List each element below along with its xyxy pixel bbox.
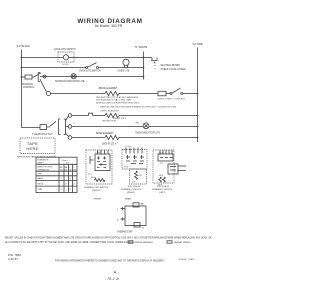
svg-text:FOR WIRING INFORMATION REFER T: FOR WIRING INFORMATION REFER TO OWNERS G… [55,260,164,263]
thermostat switch [32,121,56,136]
wire [119,93,158,95]
svg-text:ELEMENTS: ELEMENTS [38,160,49,162]
svg-text:BA: BA [65,166,68,169]
svg-text:SURFACE UNIT SWITCH: SURFACE UNIT SWITCH [84,186,108,189]
thermostat box [117,202,146,233]
wire [119,115,198,117]
svg-text:Poss 1: Poss 1 [62,160,69,162]
surface unit switch 3 [152,150,186,194]
svg-text:OVEN ELEMENT: OVEN ELEMENT [100,111,120,113]
thermal cutout [89,113,93,115]
svg-text:CLOCK: CLOCK [62,64,69,66]
svg-text:1 2 3 4: 1 2 3 4 [125,146,131,148]
oven control switch S2 [157,88,198,100]
svg-text:d: d [138,123,139,125]
svg-text:OVEN LITE SWITCH: OVEN LITE SWITCH [79,70,101,72]
wire [119,137,198,139]
neutral terminal [151,58,186,72]
wire top element line [72,115,89,117]
svg-text:"L1" BLACK: "L1" BLACK [16,44,30,48]
svg-text:CHECK LOCAL CODES: CHECK LOCAL CODES [161,68,186,71]
svg-text:CONTROL: CONTROL [23,87,35,89]
svg-text:WIRE OF OVEN: WIRE OF OVEN [38,167,53,169]
svg-text:(RIGHT): (RIGHT) [127,192,135,194]
svg-text:H 2 4: H 2 4 [124,167,128,169]
svg-text:B: B [117,220,119,222]
svg-text:X: X [74,183,76,185]
clock motor M1 [54,49,76,66]
svg-text:T-BR: T-BR [38,189,43,191]
thermostat feed wire [39,126,40,128]
svg-text:2 P 4: 2 P 4 [88,174,92,176]
svg-text:BAKE: BAKE [38,177,44,180]
bake element R3 [96,132,119,145]
svg-text:CAUTION: USE ONLY P/N 816245 E: CAUTION: USE ONLY P/N 816245 ELEMENT. 81… [100,106,176,109]
svg-text:OVEN INDICATOR LITE: OVEN INDICATOR LITE [135,132,161,135]
surface unit switch 1 [84,150,112,201]
svg-text:AA: AA [141,202,144,205]
svg-text:3000 W 118 V: 3000 W 118 V [113,118,127,120]
wire N neutral [143,52,145,80]
svg-text:X: X [61,189,63,191]
chart table [36,157,77,192]
svg-text:CABINET WIRING: CABINET WIRING [174,241,192,244]
svg-text:SURFACE CONTROL: SURFACE CONTROL [121,188,142,191]
svg-text:8 W: 8 W [139,175,142,177]
wire indicator line [72,126,143,128]
svg-text:X: X [66,183,68,185]
svg-text:OIL: OIL [60,170,63,172]
svg-text:FOR W · V3391: FOR W · V3391 [179,259,195,261]
top element R2 [100,111,127,120]
svg-text:P 4: P 4 [160,163,163,165]
svg-text:2800 W 115 V *: 2800 W 115 V * [102,144,118,146]
svg-text:REAR: REAR [125,198,131,201]
wire L2 bus [197,48,199,143]
wire clock line [22,58,153,61]
svg-text:b: b [74,123,76,125]
svg-text:OFF: OFF [38,174,43,176]
svg-text:"N" WHITE: "N" WHITE [135,45,148,49]
svg-text:L1 H P: L1 H P [96,152,102,154]
svg-text:L: L [117,209,119,211]
svg-text:OVEN LITE: OVEN LITE [118,71,130,73]
svg-text:THERMOSTAT: THERMOSTAT [117,231,133,234]
wire bake line [72,137,105,139]
wire surface indicator line [40,76,144,78]
svg-text:THERMOSTAT: THERMOSTAT [32,132,53,136]
svg-text:8 IN. 2400 W: 8 IN. 2400 W [128,186,140,188]
svg-text:WIRING HARNESS: WIRING HARNESS [135,241,154,244]
svg-text:(LEFT): (LEFT) [159,192,166,194]
terminal b [47,92,51,96]
svg-text:2685 W AT 236 V. 672 W AT 118: 2685 W AT 236 V. 672 W AT 118 V EACH SID… [96,96,139,99]
svg-text:X: X [69,178,71,180]
svg-text:UNIT HOOKUP: UNIT HOOKUP [102,121,117,123]
svg-text:SWIT *: SWIT * [38,162,45,164]
wire oven lite line [22,67,144,69]
surface indicator lamp [55,74,85,83]
svg-text:SURFACE: SURFACE [22,83,33,86]
surface unit switch 2 [121,146,147,200]
svg-text:HERE: HERE [26,146,38,151]
svg-text:(FRONT): (FRONT) [92,190,101,192]
svg-text:2050 W AT 208 V TOTAL CONN. LO: 2050 W AT 208 V TOTAL CONN. LOAD [96,99,132,102]
oven lite lamp [118,59,130,72]
svg-text:6 W: 6 W [132,182,135,184]
oven indicator lamp [135,123,198,135]
svg-text:BROIL ELEMENT: BROIL ELEMENT [99,88,118,90]
wire L1 bus [22,50,40,128]
selector contacts [59,114,72,140]
svg-text:FRONT: FRONT [94,199,102,201]
svg-text:1 2 3: 1 2 3 [159,152,163,154]
svg-text:WITH ALL UNITS ON HIGH POSITIO: WITH ALL UNITS ON HIGH POSITION AT 236 V [96,102,140,105]
svg-text:6 IN. 1500 W: 6 IN. 1500 W [157,186,169,188]
wire broil line [40,79,47,92]
oven lite switch S1 [79,63,101,73]
svg-text:"L2" RED: "L2" RED [192,42,203,46]
svg-text:2-20-67: 2-20-67 [8,257,18,261]
svg-text:X: X [61,178,63,180]
broil element R1 [96,88,176,109]
svg-text:BROIL: BROIL [38,183,45,185]
svg-text:SURFACE CONTROL: SURFACE CONTROL [152,188,173,191]
svg-text:OVEN TEMP. CONTROL: OVEN TEMP. CONTROL [157,98,187,100]
svg-text:X: X [69,189,71,191]
svg-text:OPERATION: OPERATION [38,168,50,171]
svg-text:LOCK-LITE SWITCH: LOCK-LITE SWITCH [54,49,76,51]
svg-text:ALL CONTACTS IN LINE WITH A "B: ALL CONTACTS IN LINE WITH A "BT" AT "B-L… [5,241,133,244]
svg-text:60 Hz: 60 Hz [91,177,96,179]
svg-text:48 W: 48 W [159,175,163,177]
svg-text:for Model: 363.FR: for Model: 363.FR [95,24,123,28]
tape here box [17,138,57,158]
surface control switch [22,73,42,90]
svg-text:RESIST. VALUES IN OHMS AT ROOM: RESIST. VALUES IN OHMS AT ROOM TEMP. ELE… [5,236,212,239]
terminal a [43,75,46,78]
svg-text:SURFACE INDICATOR LITE: SURFACE INDICATOR LITE [55,80,85,83]
svg-text:NEUTRAL (BOND): NEUTRAL (BOND) [161,64,181,67]
svg-text:78-2 4r: 78-2 4r [107,277,120,281]
svg-text:PL: PL [142,228,145,230]
svg-text:BAKE ELEMENT: BAKE ELEMENT [96,132,114,135]
svg-text:A: A [114,269,117,274]
